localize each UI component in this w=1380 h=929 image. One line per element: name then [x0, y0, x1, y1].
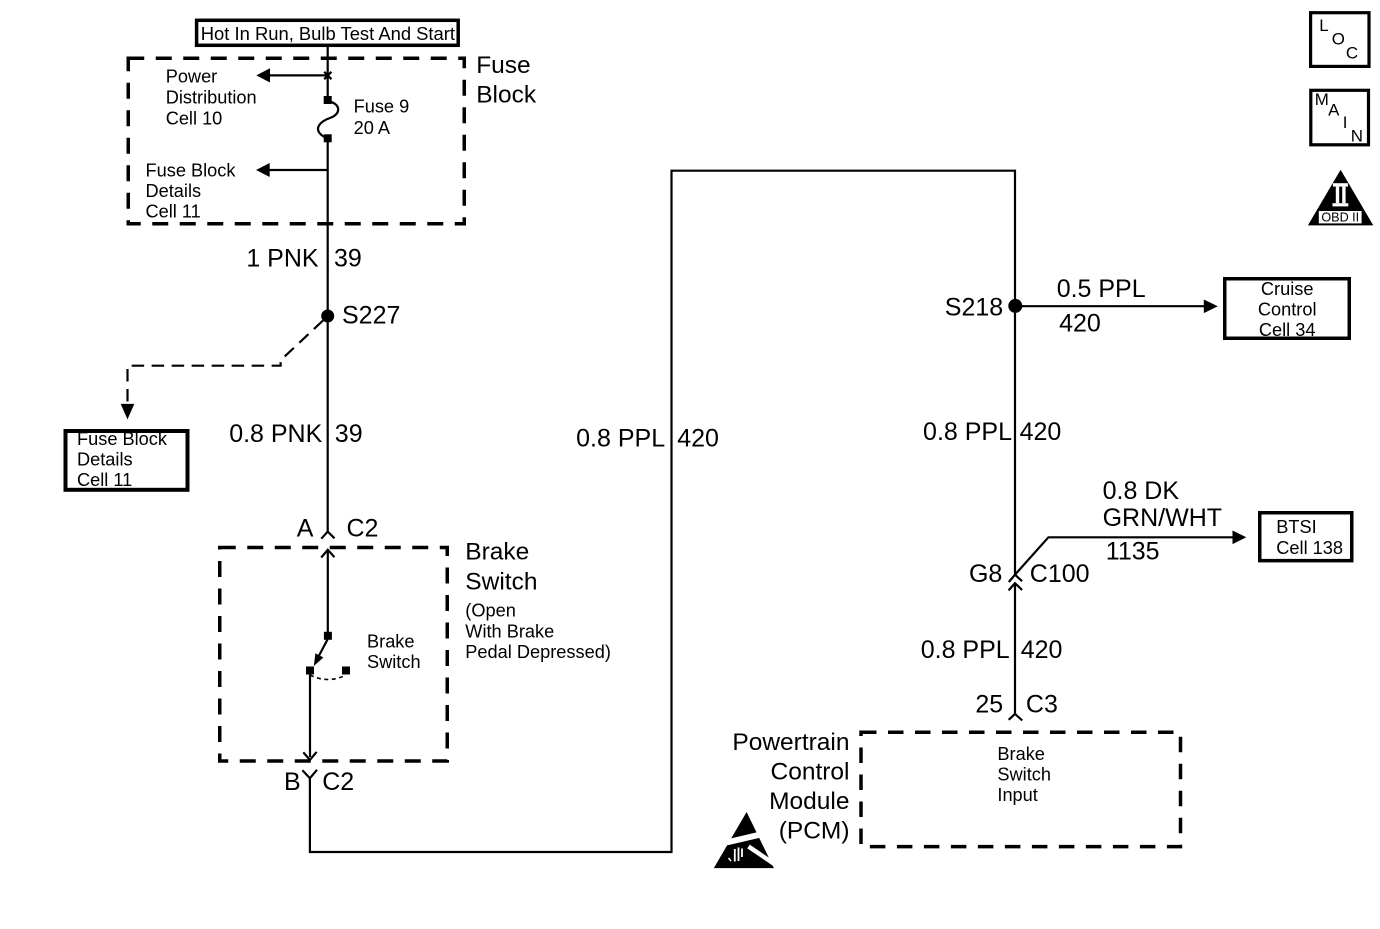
svg-text:1 PNK: 1 PNK — [246, 245, 319, 273]
svg-text:420: 420 — [1059, 309, 1101, 337]
svg-text:Control: Control — [1258, 300, 1317, 320]
svg-text:420: 420 — [1021, 636, 1063, 664]
svg-text:Cell 138: Cell 138 — [1276, 538, 1343, 558]
svg-text:B: B — [284, 768, 301, 796]
svg-text:Cruise: Cruise — [1261, 279, 1314, 299]
svg-text:0.8 PPL: 0.8 PPL — [921, 636, 1010, 664]
svg-text:C2: C2 — [347, 514, 379, 542]
svg-text:0.8 PPL: 0.8 PPL — [576, 425, 665, 453]
svg-text:G8: G8 — [969, 560, 1002, 588]
svg-text:Power: Power — [166, 66, 218, 86]
svg-text:Switch: Switch — [367, 652, 421, 672]
svg-text:0.8 DK: 0.8 DK — [1103, 477, 1180, 505]
svg-text:Cell 10: Cell 10 — [166, 108, 223, 128]
svg-text:A: A — [297, 514, 314, 542]
svg-text:Control: Control — [771, 758, 850, 785]
svg-text:Input: Input — [997, 785, 1037, 805]
svg-text:Hot In Run, Bulb Test And Star: Hot In Run, Bulb Test And Start — [201, 23, 455, 44]
svg-text:39: 39 — [335, 420, 363, 448]
svg-text:C3: C3 — [1026, 691, 1058, 719]
svg-text:N: N — [1351, 127, 1363, 146]
svg-text:Brake: Brake — [465, 539, 529, 566]
svg-text:Block: Block — [476, 81, 537, 108]
svg-text:With Brake: With Brake — [465, 621, 554, 641]
svg-text:Distribution: Distribution — [166, 87, 257, 107]
svg-text:0.8 PNK: 0.8 PNK — [229, 420, 322, 448]
svg-text:Switch: Switch — [465, 569, 537, 596]
svg-text:O: O — [1332, 30, 1345, 49]
svg-text:Fuse 9: Fuse 9 — [354, 97, 410, 117]
svg-text:S218: S218 — [945, 293, 1003, 321]
svg-text:39: 39 — [334, 245, 362, 273]
svg-text:1135: 1135 — [1106, 538, 1160, 566]
svg-text:GRN/WHT: GRN/WHT — [1103, 504, 1222, 532]
svg-text:Cell 11: Cell 11 — [146, 202, 201, 222]
svg-text:Fuse Block: Fuse Block — [77, 429, 168, 449]
svg-text:BTSI: BTSI — [1276, 517, 1316, 537]
svg-text:Cell 34: Cell 34 — [1259, 320, 1316, 340]
svg-text:C: C — [1346, 43, 1358, 62]
svg-text:I: I — [1343, 113, 1348, 132]
svg-text:OBD II: OBD II — [1321, 211, 1359, 225]
svg-text:Brake: Brake — [997, 744, 1045, 764]
svg-text:0.8 PPL: 0.8 PPL — [923, 418, 1012, 446]
svg-text:25: 25 — [975, 691, 1003, 719]
svg-text:M: M — [1315, 90, 1329, 109]
svg-text:C100: C100 — [1030, 560, 1090, 588]
svg-text:Fuse Block: Fuse Block — [146, 160, 237, 180]
svg-text:Module: Module — [769, 788, 849, 815]
svg-text:Switch: Switch — [997, 764, 1051, 784]
svg-text:(Open: (Open — [465, 601, 516, 621]
svg-text:L: L — [1319, 16, 1328, 35]
svg-text:Pedal Depressed): Pedal Depressed) — [465, 642, 611, 662]
svg-text:S227: S227 — [342, 302, 400, 330]
svg-text:A: A — [1328, 101, 1340, 120]
svg-text:420: 420 — [1020, 418, 1062, 446]
svg-text:420: 420 — [677, 425, 719, 453]
svg-text:Brake: Brake — [367, 632, 415, 652]
svg-text:Powertrain: Powertrain — [732, 729, 849, 756]
svg-text:Fuse: Fuse — [476, 52, 530, 79]
svg-text:0.5 PPL: 0.5 PPL — [1057, 275, 1146, 303]
svg-text:Cell 11: Cell 11 — [77, 470, 132, 490]
svg-text:20 A: 20 A — [354, 118, 391, 138]
svg-text:C2: C2 — [322, 768, 354, 796]
svg-text:Details: Details — [146, 181, 202, 201]
svg-text:Details: Details — [77, 450, 133, 470]
svg-text:(PCM): (PCM) — [779, 817, 850, 844]
